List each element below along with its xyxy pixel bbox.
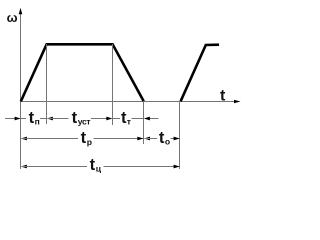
svg-text:о: о — [165, 136, 170, 146]
svg-text:ц: ц — [96, 163, 102, 173]
omega axis arrowhead — [19, 8, 23, 15]
dimension t_r left arrow — [21, 137, 78, 141]
dimension t_p (acceleration) outside arrow left — [5, 117, 21, 121]
dimension t_p line stub — [21, 118, 26, 120]
dimension t_o left arrow — [144, 137, 157, 141]
dimension t_c left arrow — [21, 165, 87, 169]
dimension t_c right arrow — [104, 165, 180, 169]
svg-text:т: т — [127, 116, 131, 126]
svg-text:t: t — [220, 88, 226, 105]
svg-text:ω: ω — [7, 10, 18, 25]
dimension t_r right arrow — [94, 137, 144, 141]
speed profile trapezoid 1 — [21, 44, 144, 101]
dimension t_ust right arrow — [91, 117, 112, 121]
dimension t_p line right stub — [40, 118, 46, 120]
dimension t_o right arrow — [171, 137, 180, 141]
svg-text:t: t — [81, 128, 87, 147]
dimension t_t outside arrow right — [144, 117, 159, 121]
svg-text:уст: уст — [78, 116, 91, 126]
dimension t_ust left arrow — [47, 117, 69, 121]
extension line at x=144 — [143, 101, 145, 144]
svg-text:t: t — [90, 155, 96, 174]
dimension t_t line right stub — [132, 118, 144, 120]
t axis (horizontal) — [21, 101, 237, 103]
dimension t_t line stub — [113, 118, 120, 120]
speed profile trapezoid 2 (partial) — [181, 45, 219, 102]
svg-text:р: р — [87, 137, 92, 147]
omega axis (vertical) — [20, 10, 22, 169]
svg-text:t: t — [72, 108, 78, 127]
extension line at x=112.5 — [112, 44, 114, 125]
extension line at x=47 — [46, 44, 48, 124]
extension line at x=180 — [179, 101, 181, 169]
svg-text:п: п — [35, 116, 40, 126]
t axis arrowhead — [234, 100, 241, 104]
